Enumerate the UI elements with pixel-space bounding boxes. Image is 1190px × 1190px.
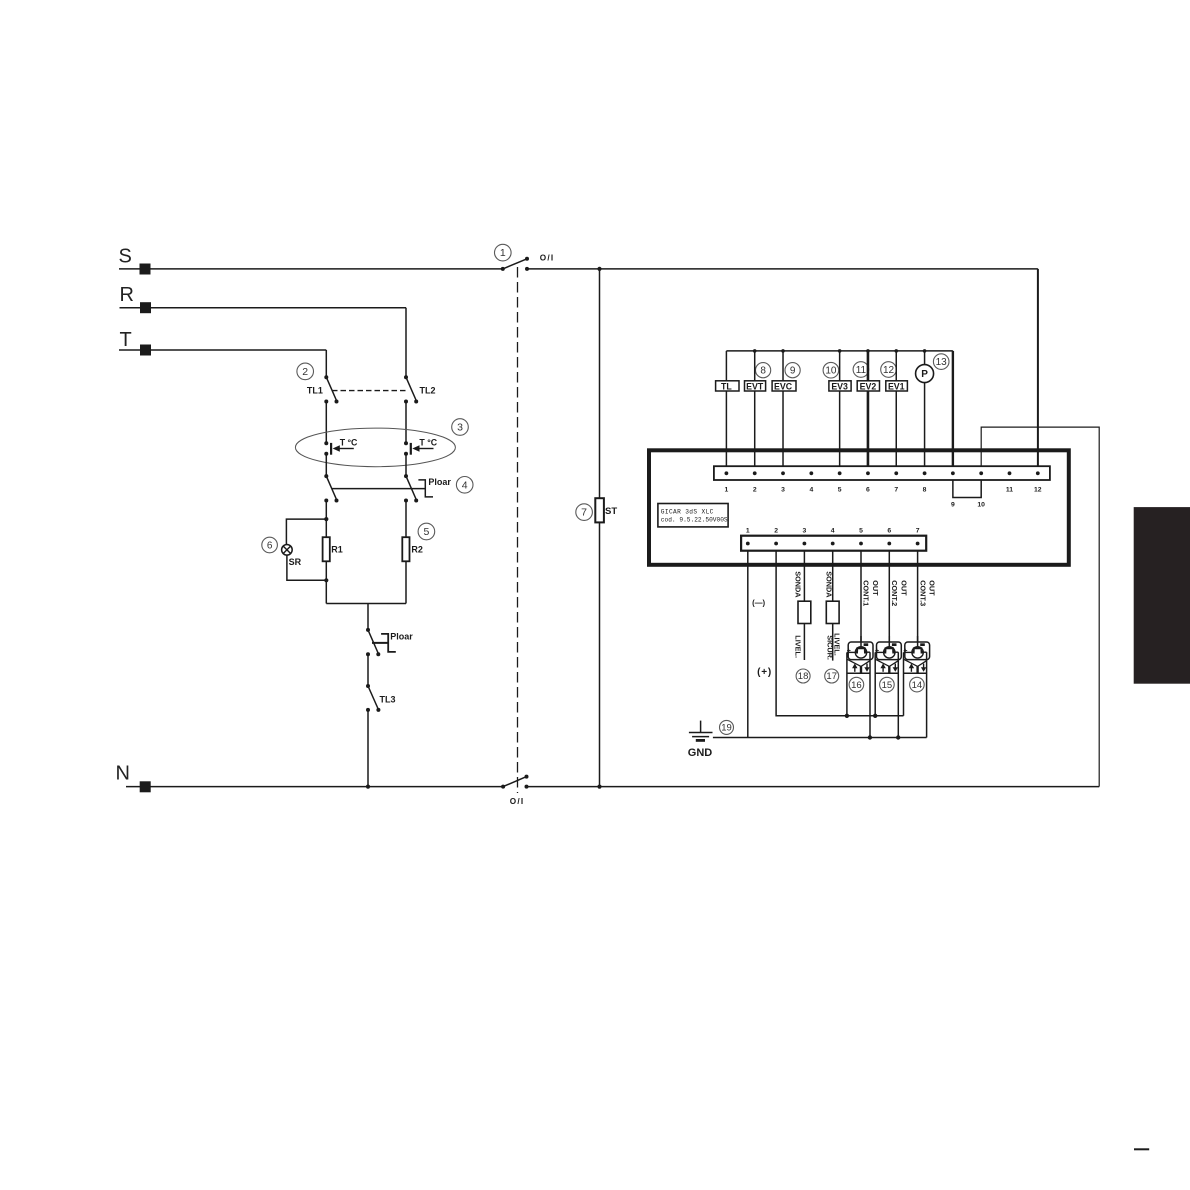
svg-text:5: 5 — [423, 526, 429, 538]
circled 6 — [262, 537, 278, 553]
svg-text:cod. 9.5.22.50V00S: cod. 9.5.22.50V00S — [661, 516, 728, 523]
lamp SR — [282, 545, 293, 556]
svg-text:13: 13 — [936, 357, 948, 368]
wire lower-terminal4 to probe — [832, 551, 834, 601]
svg-text:9: 9 — [951, 502, 955, 509]
circled 3 — [452, 419, 469, 436]
wire lower-terminal6 to motor15 — [888, 551, 890, 642]
svg-text:EVT: EVT — [746, 381, 764, 391]
svg-text:11: 11 — [856, 365, 867, 376]
wire below probe LIVEL — [803, 624, 805, 661]
svg-text:7: 7 — [894, 486, 898, 493]
svg-text:16: 16 — [851, 680, 862, 691]
svg-text:SICUR.: SICUR. — [825, 635, 834, 660]
ellipse group 3 (thermostats) — [295, 428, 455, 467]
svg-text:7: 7 — [581, 507, 587, 519]
load box EV1 — [886, 381, 908, 391]
svg-text:3: 3 — [803, 528, 807, 535]
wire GND line — [713, 737, 927, 739]
bracket Ploar lower — [381, 634, 396, 652]
load box EVC — [772, 381, 796, 391]
wire lower-terminal1 to GND line — [747, 551, 749, 737]
svg-text:TL: TL — [721, 381, 732, 391]
switch O/I lower (N rail) — [501, 775, 528, 789]
svg-text:EVC: EVC — [774, 381, 793, 391]
motor symbol 15 — [875, 636, 901, 738]
node dot GND / motor15 — [896, 735, 900, 739]
wire terminal6-EV2 (thick) — [867, 351, 870, 466]
circled 10 — [823, 362, 839, 378]
wire top bus — [726, 350, 952, 352]
node dot plus line / motor15 — [873, 714, 877, 718]
bracket Ploar pair — [418, 480, 433, 497]
mechanical link Ploar pair — [332, 488, 425, 490]
connector square S — [140, 264, 151, 275]
svg-text:Ploar: Ploar — [428, 477, 451, 487]
svg-text:S: S — [119, 245, 132, 267]
wire bus to Ploar lower — [367, 604, 369, 630]
load box EV3 — [829, 381, 851, 391]
switch Ploar lower — [366, 628, 380, 656]
switch TL1 — [324, 375, 338, 403]
circled 11 — [853, 362, 869, 378]
label OUT CONT.1 — [862, 580, 880, 606]
svg-text:8: 8 — [760, 366, 766, 377]
wire Ploar lower to TL3 — [367, 654, 369, 686]
svg-text:6: 6 — [866, 486, 870, 493]
wire S rail left segment — [119, 268, 503, 270]
wire ST upper — [599, 269, 601, 498]
terminal dots 1-12 — [725, 471, 1040, 475]
label OUT CONT.2 — [890, 580, 908, 606]
wire lower-terminal3 to probe — [803, 551, 805, 601]
terminal numbers lower 1-7 — [746, 528, 920, 535]
load box TL — [716, 381, 739, 391]
wire TL1 to thermostat — [325, 402, 327, 444]
node junction S rail / ST — [597, 267, 601, 271]
circled 14 — [910, 677, 925, 692]
svg-text:2: 2 — [774, 528, 778, 535]
resistor R1 — [323, 537, 330, 561]
wire thermostat-left to Ploar switch — [325, 454, 327, 476]
switch TL2 — [404, 375, 418, 403]
svg-text:9: 9 — [790, 366, 796, 377]
fuse ST — [595, 498, 604, 522]
svg-text:O/I: O/I — [540, 253, 555, 262]
label OUT CONT.3 — [918, 580, 936, 606]
svg-text:6: 6 — [887, 528, 891, 535]
circled 5 — [418, 523, 435, 540]
jumper terminals 9-10 — [953, 480, 981, 498]
wire lower-terminal2 to plus line — [776, 551, 903, 716]
svg-text:T: T — [120, 329, 132, 351]
label LIVEL. SICUR. — [825, 633, 841, 660]
circled 12 — [881, 362, 897, 378]
circled 16 — [849, 677, 864, 692]
node dot plus line / motor16 — [845, 714, 849, 718]
svg-text:CONT.1: CONT.1 — [862, 580, 871, 606]
circled 4 — [456, 477, 473, 494]
wire T rail — [119, 349, 326, 351]
circled 19 — [720, 720, 734, 734]
wire ST lower — [599, 522, 601, 786]
wire top bus to terminal 9 (thick) — [952, 351, 954, 466]
wire junction to lamp SR — [286, 519, 326, 545]
wire terminal1-TL — [725, 351, 727, 466]
wire below R2 — [405, 561, 407, 603]
svg-text:CONT.3: CONT.3 — [918, 580, 927, 606]
svg-text:3: 3 — [457, 422, 463, 434]
svg-text:GND: GND — [688, 747, 713, 759]
wire thermostat-right to Ploar switch — [405, 454, 407, 476]
circled 17 — [825, 669, 839, 683]
wire TL2 to thermostat — [405, 402, 407, 444]
wire below probe LIVEL SICUR — [832, 624, 834, 661]
svg-text:T °C: T °C — [419, 437, 437, 447]
svg-text:11: 11 — [1006, 486, 1013, 493]
svg-text:5: 5 — [838, 486, 842, 493]
node dots on top bus — [753, 349, 926, 353]
svg-text:TL3: TL3 — [380, 694, 396, 704]
circled 18 — [796, 669, 810, 683]
connector square N — [140, 781, 151, 792]
page dash bottom right — [1134, 1148, 1149, 1150]
svg-text:17: 17 — [826, 671, 837, 682]
svg-text:7: 7 — [916, 528, 920, 535]
node junction below R1 — [324, 578, 328, 582]
svg-text:18: 18 — [798, 671, 809, 682]
controller GICAR box outline — [649, 450, 1069, 565]
wire terminal7-EV1 — [895, 351, 897, 466]
circled 13 — [933, 354, 949, 370]
svg-text:2: 2 — [302, 366, 308, 378]
switch Ploar right — [404, 474, 418, 502]
terminal numbers 1-12 — [725, 486, 1042, 508]
controller type label box — [658, 504, 728, 527]
svg-text:P: P — [921, 369, 928, 380]
motor symbol 14 — [903, 636, 929, 738]
wire terminal2-EVT — [754, 351, 756, 466]
svg-text:N: N — [116, 762, 130, 784]
svg-text:EV2: EV2 — [860, 381, 877, 391]
node junction above R1 — [324, 517, 328, 521]
connector square T — [140, 345, 151, 356]
svg-text:R: R — [120, 284, 134, 306]
wire Ploar-left to R1 — [325, 501, 327, 538]
svg-text:4: 4 — [809, 486, 813, 493]
svg-text:14: 14 — [912, 680, 923, 691]
svg-text:6: 6 — [267, 540, 273, 551]
pump P circle — [916, 365, 934, 383]
svg-text:10: 10 — [977, 502, 985, 509]
svg-text:R2: R2 — [411, 544, 423, 554]
svg-text:(+): (+) — [757, 667, 772, 678]
thermostat contact T°C right — [404, 441, 434, 456]
separation dashed line — [517, 267, 519, 793]
mechanical link Ploar lower — [372, 642, 388, 644]
svg-text:OUT: OUT — [871, 580, 880, 596]
circled 8 — [756, 363, 771, 378]
svg-text:1: 1 — [746, 528, 750, 535]
motor symbol 16 — [847, 636, 873, 738]
wire TL3 to N rail — [367, 710, 369, 787]
circled 1 — [495, 244, 512, 261]
load box EVT — [745, 381, 766, 391]
svg-text:1: 1 — [725, 486, 729, 493]
svg-text:(—): (—) — [752, 599, 765, 608]
node dot GND / motor16 — [868, 735, 872, 739]
dashed link TL1-TL2 — [332, 390, 406, 392]
wire S rail right segment — [527, 268, 1038, 270]
wire R rail — [120, 307, 407, 309]
circled 15 — [880, 677, 895, 692]
svg-text:OUT: OUT — [928, 580, 937, 596]
connector square R — [140, 302, 151, 313]
svg-text:2: 2 — [753, 486, 757, 493]
svg-text:5: 5 — [859, 528, 863, 535]
svg-text:4: 4 — [831, 528, 835, 535]
probe LIVEL resistor — [798, 601, 811, 623]
svg-text:15: 15 — [882, 680, 893, 691]
wire lower-terminal7 to motor14 — [917, 551, 919, 642]
svg-text:Ploar: Ploar — [390, 631, 413, 641]
switch Ploar left — [324, 474, 338, 502]
svg-text:12: 12 — [883, 365, 895, 376]
svg-text:GICAR 3dS XLC: GICAR 3dS XLC — [661, 509, 714, 516]
wire N rail right segment — [527, 786, 1100, 788]
wire below R1 — [325, 561, 327, 603]
ground symbol — [689, 721, 713, 741]
svg-text:ST: ST — [605, 506, 617, 517]
circled 9 — [785, 363, 800, 378]
wire lamp to lower junction — [287, 555, 326, 580]
svg-text:10: 10 — [825, 366, 837, 377]
terminal strip lower (1-7) — [741, 536, 926, 551]
resistor R2 — [402, 537, 409, 561]
svg-text:SONDA: SONDA — [793, 571, 802, 598]
svg-text:LIVEL.: LIVEL. — [793, 635, 802, 658]
svg-text:12: 12 — [1034, 486, 1042, 493]
svg-text:8: 8 — [923, 486, 927, 493]
svg-text:1: 1 — [500, 247, 506, 259]
svg-text:4: 4 — [462, 479, 468, 491]
svg-text:EV1: EV1 — [888, 381, 905, 391]
svg-text:TL2: TL2 — [420, 386, 436, 396]
wire bottom bus R1-R2 — [326, 603, 406, 605]
probe LIVEL SICUR resistor — [826, 601, 839, 623]
svg-text:T °C: T °C — [340, 437, 358, 447]
svg-text:OUT: OUT — [899, 580, 908, 596]
terminal dots lower 1-7 — [746, 542, 920, 546]
wire T drop to TL1 — [325, 350, 327, 377]
svg-text:3: 3 — [781, 486, 785, 493]
wire N rail left segment — [126, 786, 503, 788]
wire Ploar-right to R2 — [405, 501, 407, 538]
wire S rail to terminal 12 (thick) — [1037, 269, 1039, 466]
node junction TL3 / N rail — [366, 785, 370, 789]
svg-text:R1: R1 — [331, 544, 343, 554]
terminal strip upper (1-12) — [714, 466, 1050, 480]
svg-text:SR: SR — [289, 557, 302, 567]
node junction N rail / ST — [597, 785, 601, 789]
black sidebar tab — [1134, 507, 1190, 684]
svg-text:19: 19 — [721, 723, 732, 734]
svg-text:O/I: O/I — [510, 797, 525, 806]
switch TL3 — [366, 684, 380, 712]
svg-text:CONT.2: CONT.2 — [890, 580, 899, 606]
wire terminal5-EV3 — [839, 351, 841, 466]
wire lower-terminal5 to motor16 — [860, 551, 862, 642]
wire R drop to TL2 — [405, 308, 407, 378]
svg-text:TL1: TL1 — [307, 386, 323, 396]
wire terminal8-P — [924, 351, 926, 466]
wire terminal3-EVC — [782, 351, 784, 466]
svg-text:EV3: EV3 — [831, 381, 848, 391]
wire terminal 10 loop to N rail — [981, 427, 1099, 786]
thermostat contact T°C left — [324, 441, 354, 456]
circled 7 — [576, 504, 593, 521]
load box EV2 — [857, 381, 879, 391]
circled 2 — [297, 363, 314, 380]
switch O/I upper (S rail) — [501, 257, 529, 271]
